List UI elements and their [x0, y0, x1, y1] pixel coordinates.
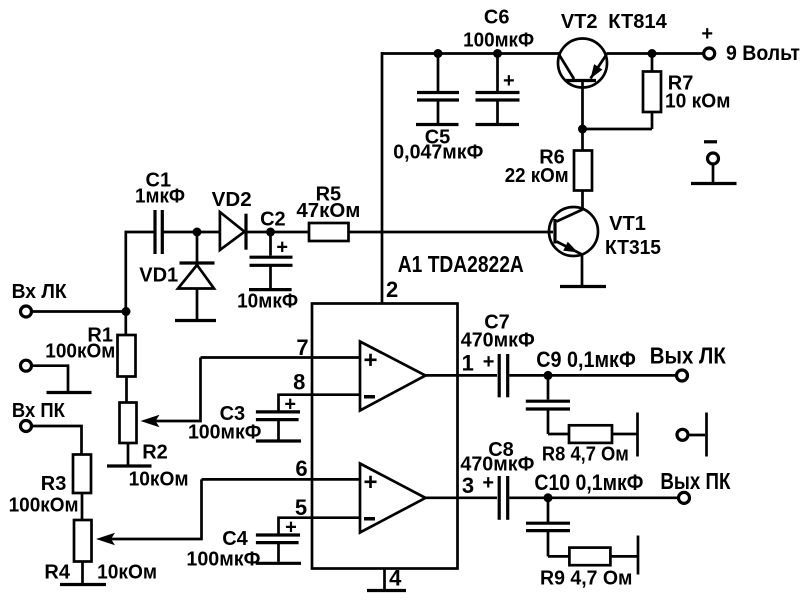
label opamp1 minus	[364, 395, 375, 399]
wire C5 lead	[437, 54, 440, 92]
wire R7 bottom lead	[651, 112, 654, 129]
resistor R5	[309, 223, 349, 241]
minus sign	[704, 140, 717, 143]
wire VD2 to C2 node	[246, 231, 271, 234]
svg-text:Вых ПК: Вых ПК	[660, 468, 731, 494]
svg-text:7: 7	[296, 335, 308, 360]
potentiometer R2	[120, 403, 137, 444]
capacitor C2	[249, 232, 293, 290]
op-amp channel 2 triangle	[360, 464, 426, 533]
svg-text:100кОм: 100кОм	[9, 494, 79, 516]
capacitor C5	[416, 93, 459, 125]
capacitor C9	[526, 375, 570, 434]
svg-text:C4: C4	[222, 528, 248, 550]
bar R9 end	[637, 536, 640, 575]
wire R7 top lead	[651, 54, 654, 72]
node R7 top junction	[648, 49, 657, 58]
svg-text:8: 8	[293, 370, 305, 395]
wire C8 to terminal	[509, 496, 678, 499]
wire R6 bottom lead	[581, 191, 584, 211]
wire minus terminal lead	[712, 165, 715, 183]
resistor R7	[643, 72, 661, 113]
wire input ground	[32, 366, 69, 391]
terminal out LK	[677, 370, 688, 381]
wire C6 lead	[496, 54, 499, 92]
svg-text:R4: R4	[44, 562, 70, 584]
svg-text:4: 4	[389, 566, 402, 591]
wire C9 to R8	[548, 433, 569, 436]
node C6 top junction	[493, 49, 502, 58]
capacitor C4	[256, 535, 301, 563]
terminal input ground	[21, 360, 32, 371]
wire speaker ground	[689, 434, 706, 437]
capacitor C10	[526, 498, 570, 557]
terminal out PK	[679, 492, 690, 503]
svg-text:2: 2	[386, 277, 398, 302]
ground minus terminal	[691, 182, 737, 185]
transistor VT2	[558, 39, 607, 130]
wire pin5	[279, 518, 361, 534]
svg-text:R8 4,7 Ом: R8 4,7 Ом	[542, 444, 629, 466]
wire C10 to R9	[548, 555, 569, 558]
ground pin4	[367, 589, 406, 592]
arrow R4 wiper	[96, 533, 115, 545]
bar R8 end	[636, 413, 639, 457]
capacitor C3	[256, 412, 301, 441]
svg-text:10кОм: 10кОм	[129, 469, 189, 491]
terminal Vx LK	[21, 306, 32, 317]
wire vertical pin2 riser	[381, 52, 384, 304]
svg-text:+: +	[276, 237, 288, 259]
capacitor C7	[499, 354, 508, 397]
node VD1 junction	[193, 228, 202, 237]
resistor R9	[569, 548, 610, 566]
svg-text:+: +	[503, 70, 515, 92]
svg-text:9 Вольт: 9 Вольт	[726, 42, 800, 65]
ground VT1 emitter	[560, 285, 606, 288]
svg-text:Вых ЛК: Вых ЛК	[650, 343, 727, 369]
wire C1 to node	[162, 231, 197, 234]
node input LK junction	[122, 307, 131, 316]
svg-text:100мкФ: 100мкФ	[463, 29, 534, 51]
ground input	[47, 391, 92, 394]
svg-text:0,047мкФ: 0,047мкФ	[393, 142, 483, 164]
svg-text:100мкФ: 100мкФ	[188, 422, 262, 444]
wire pin4	[383, 569, 386, 590]
svg-text:10 кОм: 10 кОм	[665, 91, 731, 113]
svg-text:10мкФ: 10мкФ	[237, 290, 298, 312]
resistor R1	[118, 335, 136, 377]
capacitor C1	[155, 210, 162, 254]
diode VD2	[220, 212, 246, 250]
transistor VT1	[549, 207, 598, 285]
capacitor C8	[499, 476, 508, 520]
svg-text:C10 0,1мкФ: C10 0,1мкФ	[534, 470, 643, 495]
svg-text:Вх ПК: Вх ПК	[12, 400, 66, 422]
capacitor C6	[476, 93, 520, 125]
svg-text:VT1: VT1	[609, 213, 646, 235]
node C2 junction	[266, 228, 275, 237]
wire C7 to terminal	[509, 374, 676, 377]
op-amp channel 1 triangle	[360, 342, 426, 411]
svg-text:R3: R3	[41, 473, 67, 495]
svg-text:R2: R2	[142, 441, 168, 463]
svg-text:КТ315: КТ315	[605, 237, 661, 259]
wire base row	[583, 128, 653, 131]
svg-text:1мкФ: 1мкФ	[135, 186, 185, 208]
terminal +9V	[704, 48, 715, 59]
svg-text:470мкФ: 470мкФ	[460, 454, 534, 476]
wire R8 to bar	[612, 433, 638, 436]
arrow R2 wiper	[141, 415, 160, 427]
wire R2 wiper	[155, 358, 201, 422]
node VT2 base junction	[578, 125, 587, 134]
wire Vx LK	[32, 310, 127, 313]
svg-text:+: +	[483, 351, 495, 373]
wire out1	[426, 374, 498, 377]
wire R9 to bar	[610, 555, 638, 558]
svg-text:3: 3	[462, 473, 474, 498]
svg-text:C6: C6	[484, 7, 510, 29]
wire R4 wiper	[110, 479, 202, 539]
label opamp2 minus	[364, 517, 375, 521]
svg-text:VT2: VT2	[561, 11, 598, 33]
svg-text:+: +	[363, 347, 377, 374]
wire pin7	[201, 356, 361, 359]
svg-text:470мкФ: 470мкФ	[461, 330, 535, 352]
svg-text:+: +	[701, 23, 713, 45]
svg-text:VD2: VD2	[212, 189, 252, 211]
svg-text:100мкФ: 100мкФ	[186, 549, 260, 571]
wire R6 top lead	[581, 129, 584, 151]
op-amp U1 box	[312, 304, 458, 569]
node C10 junction	[544, 493, 553, 502]
svg-text:+: +	[363, 469, 377, 496]
svg-text:А1 TDA2822A: А1 TDA2822A	[398, 251, 524, 277]
wire pin6	[202, 478, 361, 481]
diode VD1	[178, 232, 215, 319]
svg-text:1: 1	[462, 350, 474, 375]
svg-text:Вх ЛК: Вх ЛК	[12, 281, 68, 303]
terminal Vx PK	[21, 421, 32, 432]
wire R3 to R4	[81, 493, 84, 520]
wire top rail left segment	[382, 52, 559, 55]
svg-text:22 кОм: 22 кОм	[505, 165, 569, 187]
wire R4 bottom	[81, 562, 84, 584]
svg-text:C9 0,1мкФ: C9 0,1мкФ	[536, 347, 636, 372]
svg-text:VD1: VD1	[139, 265, 178, 287]
svg-text:5: 5	[295, 495, 307, 520]
node C5 top junction	[434, 49, 443, 58]
wire Vx PK	[32, 426, 82, 455]
terminal speaker ground	[677, 429, 688, 440]
svg-text:10кОм: 10кОм	[97, 562, 157, 584]
potentiometer R4	[74, 520, 92, 562]
resistor R3	[73, 455, 91, 494]
svg-text:+: +	[284, 393, 296, 415]
svg-text:100кОм: 100кОм	[45, 341, 115, 363]
resistor R6	[574, 151, 592, 191]
wire R1 to R2	[125, 377, 128, 403]
wire input riser	[126, 232, 155, 335]
node C9 junction	[544, 371, 553, 380]
resistor R8	[569, 425, 612, 443]
svg-text:R9 4,7 Ом: R9 4,7 Ом	[540, 567, 633, 589]
bar speaker ground	[705, 413, 708, 457]
wire R2 bottom	[127, 443, 130, 465]
wire C2 node to R5	[271, 231, 310, 234]
wire top rail right segment	[607, 52, 704, 55]
ground VD1	[175, 319, 216, 322]
wire node to VD2	[197, 231, 220, 234]
wire pin8	[279, 395, 361, 411]
svg-text:47кОм: 47кОм	[296, 200, 360, 222]
svg-text:6: 6	[295, 456, 307, 481]
ground R2	[107, 464, 152, 467]
ground R4	[60, 583, 106, 586]
svg-text:C2: C2	[260, 209, 286, 231]
svg-text:КТ814: КТ814	[608, 11, 667, 33]
wire R5 to VT1 base	[349, 231, 554, 234]
wire out2	[426, 496, 498, 499]
terminal minus	[708, 153, 719, 164]
